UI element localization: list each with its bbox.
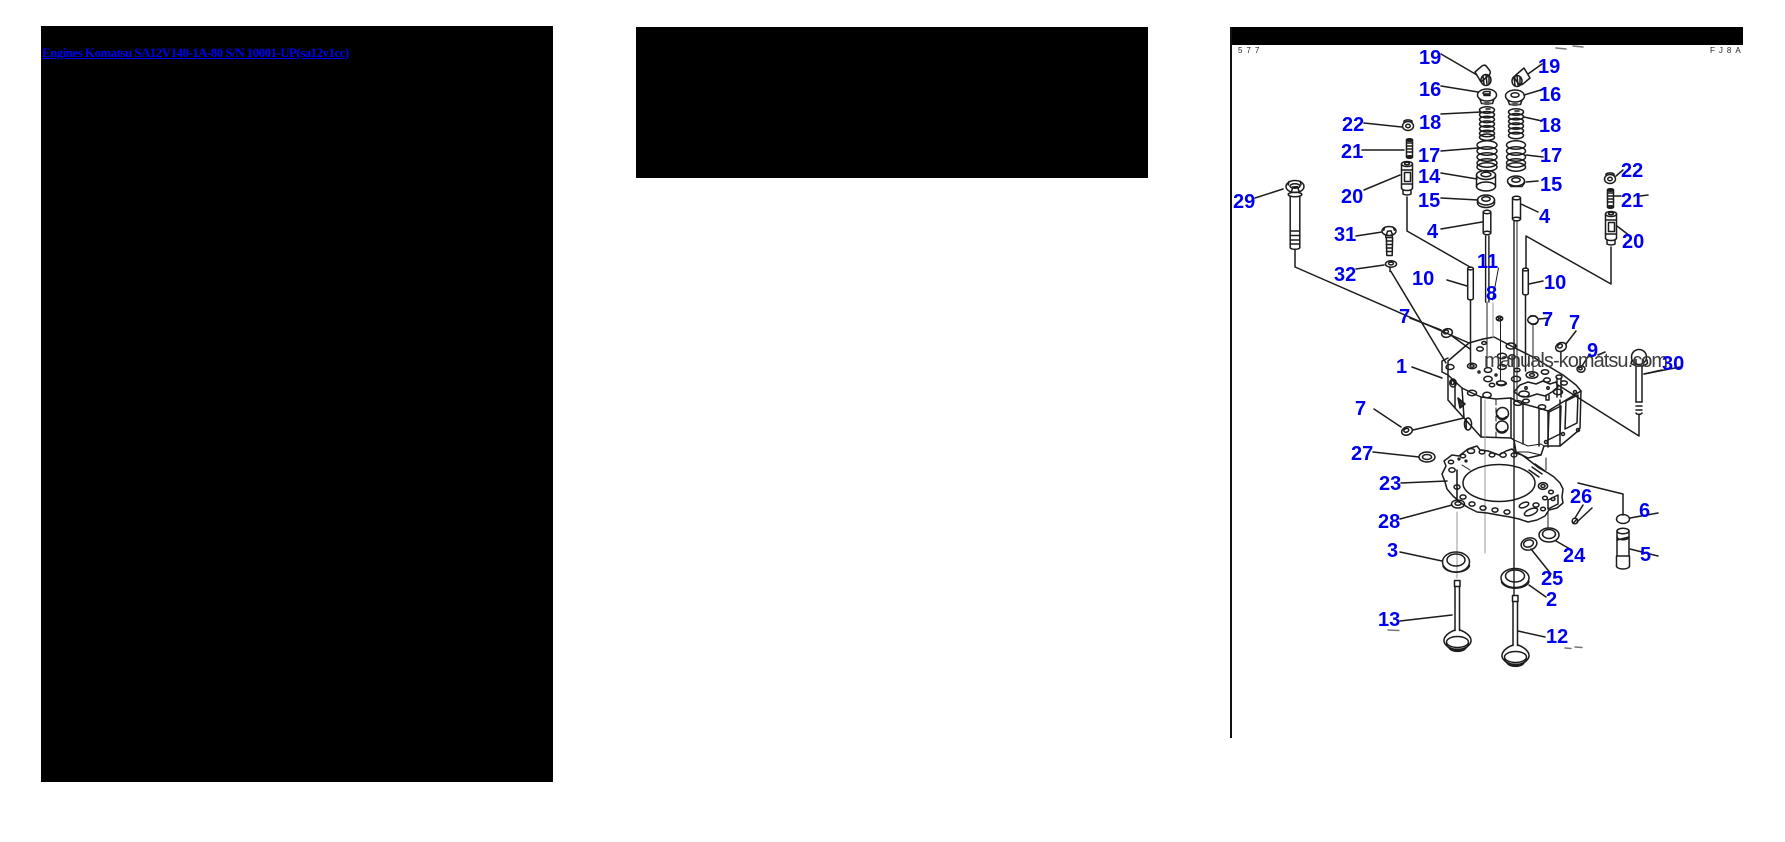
cap 6 xyxy=(1617,515,1630,524)
wire leader 13 xyxy=(1400,615,1452,621)
valve 13 xyxy=(1444,581,1471,652)
wire leader 5 xyxy=(1630,549,1658,556)
dash marks top right xyxy=(1556,46,1583,49)
wire leader 19 left xyxy=(1441,54,1477,75)
wire gasket to seal 24 xyxy=(1546,458,1548,528)
page code 577 xyxy=(1238,46,1263,55)
screw 26 xyxy=(1572,518,1578,524)
pushrod 10 left xyxy=(1468,267,1474,364)
wire leader 30 xyxy=(1644,367,1680,374)
part number labels xyxy=(1419,48,1441,68)
wire leader 23 xyxy=(1401,481,1447,483)
valve spring 17 right xyxy=(1507,141,1526,171)
head port circles xyxy=(1496,408,1509,434)
wire leader 1 xyxy=(1412,367,1442,378)
wire leader 29 xyxy=(1255,189,1283,198)
push rod 11 xyxy=(1486,236,1489,368)
wire leader 17 left xyxy=(1441,148,1478,151)
plug 7 third xyxy=(1554,341,1568,353)
wire leader 14 xyxy=(1441,173,1477,179)
dash marks bottom right xyxy=(1388,630,1582,649)
bolt 29 xyxy=(1286,181,1304,250)
crosshead 20 left xyxy=(1402,162,1413,195)
watermark xyxy=(1484,350,1667,373)
head left face port xyxy=(1450,379,1472,430)
head rocker saddle contour xyxy=(1514,375,1562,400)
valve spring 18 right xyxy=(1509,109,1524,139)
wire leader 20 left xyxy=(1364,175,1400,190)
wire leader 15 right xyxy=(1526,181,1538,182)
wire leader 3 xyxy=(1400,552,1442,561)
page code FJ8A xyxy=(1710,46,1745,55)
seal 24 xyxy=(1539,528,1559,542)
wire leader 21 left xyxy=(1362,149,1404,151)
valve keeper 19 right xyxy=(1512,68,1530,87)
wire leader 31 xyxy=(1356,232,1382,236)
valve 12 xyxy=(1502,596,1529,667)
left black image box xyxy=(41,26,553,782)
cylinder head 1 outline xyxy=(1442,337,1581,458)
pushrod 10 right xyxy=(1523,268,1529,371)
wire leader 22 right xyxy=(1616,170,1623,176)
wire from bolt 30 to head xyxy=(1558,385,1639,436)
plug 7 second xyxy=(1528,316,1538,374)
wire from crosshead 20 right xyxy=(1526,236,1611,284)
wire leader 10 right xyxy=(1529,281,1543,284)
wire leader 9 xyxy=(1582,352,1605,366)
wire leader 7 second xyxy=(1539,318,1549,319)
washer 28 xyxy=(1452,500,1465,508)
bolt 30 xyxy=(1631,350,1648,415)
valve spring 18 left xyxy=(1480,107,1495,141)
wire to cap 6 xyxy=(1578,483,1623,515)
seal 2 xyxy=(1501,569,1529,589)
middle black image box xyxy=(636,27,1148,178)
wire leader 32 xyxy=(1356,265,1384,269)
bolt 31 xyxy=(1382,227,1396,256)
wire leader 20 right xyxy=(1617,226,1630,236)
nut 22 right xyxy=(1605,173,1616,184)
head hatched wedge xyxy=(1458,398,1465,408)
wire leader 18 right xyxy=(1524,117,1542,121)
wire leader 19 right xyxy=(1528,64,1542,74)
crosshead 20 right xyxy=(1606,212,1617,245)
wire leader 18 left xyxy=(1441,112,1481,114)
valve keeper 19 left xyxy=(1475,65,1491,85)
sleeve 4 left xyxy=(1483,210,1491,234)
screw 32 xyxy=(1386,261,1397,272)
wire axis lines into head xyxy=(1457,221,1517,595)
wire leader 4 left xyxy=(1441,222,1482,229)
wire from crosshead 20 left down to pushrod xyxy=(1407,197,1470,267)
washer 27 xyxy=(1419,452,1435,462)
washer 15 left xyxy=(1478,195,1495,208)
wire stud through gasket xyxy=(1456,470,1458,500)
sleeve 4 right xyxy=(1513,196,1521,221)
plug 7 first xyxy=(1440,327,1470,349)
cylinder head gasket 23 xyxy=(1442,446,1563,522)
wire leader 15 left xyxy=(1441,198,1478,200)
wire leader 12 xyxy=(1518,631,1545,637)
wire from screw 32 to head xyxy=(1391,272,1446,364)
valve spring 17 left xyxy=(1477,141,1497,171)
wire leader 4 right xyxy=(1521,204,1538,212)
wire leader 21 right xyxy=(1614,195,1648,196)
seal 25 xyxy=(1520,536,1539,552)
wire leader 16 left xyxy=(1441,86,1478,92)
washer 15 right xyxy=(1508,176,1525,187)
wire leader 24 xyxy=(1556,541,1570,549)
wire leader 26 xyxy=(1575,505,1592,522)
wire leader 10 left xyxy=(1447,280,1467,286)
left border line of diagram xyxy=(1230,27,1232,738)
valve guide 5 xyxy=(1617,528,1630,569)
seal 3 xyxy=(1443,552,1470,572)
plug 9 xyxy=(1577,366,1585,372)
wire leader 7 third xyxy=(1566,331,1576,344)
stud 21 left xyxy=(1407,139,1413,159)
stud 21 right xyxy=(1608,189,1614,209)
wire leader 28 xyxy=(1400,505,1452,519)
wire leader 6 xyxy=(1630,513,1658,518)
wire leader 2 xyxy=(1529,585,1546,597)
spring retainer 16 left xyxy=(1478,89,1497,105)
wire leader 16 right xyxy=(1524,89,1544,95)
wire plug 7 fourth leader xyxy=(1374,409,1401,427)
wire leader 22 left xyxy=(1364,123,1402,127)
wire from bolt 29 to cylinder head xyxy=(1295,250,1469,344)
valve rotator 14 xyxy=(1477,171,1496,192)
head right side windows xyxy=(1545,391,1580,444)
spring retainer 16 right xyxy=(1506,90,1525,106)
hyperlink title xyxy=(42,45,349,61)
adjusting screw 8 xyxy=(1493,268,1503,381)
wire leader 25 xyxy=(1531,549,1551,574)
wire leader 17 right xyxy=(1526,155,1543,157)
wire leader 7 first xyxy=(1410,318,1441,330)
nut 22 left xyxy=(1403,120,1414,131)
plug 7 fourth xyxy=(1400,418,1464,437)
head top face holes xyxy=(1446,342,1567,410)
top black bar of diagram xyxy=(1231,27,1743,45)
wire leader 27 xyxy=(1373,452,1419,457)
